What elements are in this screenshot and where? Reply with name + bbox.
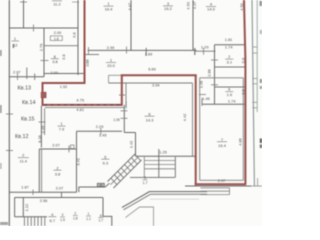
svg-text:Кв.14: Кв.14 [22, 100, 36, 106]
room5 left wall [76, 131, 78, 192]
red wall B: y83 horizontal [43, 82, 86, 84]
room label 8/3.8 [51, 54, 59, 64]
svg-text:2.00: 2.00 [50, 70, 58, 75]
room label 1/7.9 [58, 121, 66, 131]
corridor bottom dark wall under red dash [45, 107, 124, 109]
red wall I: right vertical [244, 0, 245, 184]
red wall F: y74.6 horizontal [121, 74, 197, 76]
thick corridor diagonal wall [122, 192, 207, 208]
room label 1/16.4 [104, 1, 114, 11]
svg-text:1.7: 1.7 [143, 181, 148, 185]
tick on y76.7 [17, 74, 19, 81]
stub x202 [201, 98, 203, 104]
top-left room bottom wall [9, 27, 78, 29]
svg-text:1.52: 1.52 [60, 84, 68, 89]
tick on top edge [20, 1, 27, 3]
wall x44 small rooms left [43, 28, 45, 77]
svg-text:1.74: 1.74 [228, 99, 236, 104]
mid vertical of stair box [158, 149, 160, 177]
svg-text:0.8: 0.8 [72, 32, 77, 37]
svg-text:1.45: 1.45 [99, 133, 107, 138]
svg-text:11.4: 11.4 [20, 158, 28, 163]
tick on bottom wall x33 [32, 190, 34, 196]
divider y87 [215, 86, 247, 88]
stub wall x34.7 [34, 74, 36, 81]
svg-text:14.3: 14.3 [146, 117, 155, 122]
small rooms column right: wall x214.5 [214, 45, 216, 105]
svg-text:16.2: 16.2 [164, 6, 173, 11]
room label 2/3.1 [225, 54, 233, 64]
right building edge double wall [252, 0, 254, 186]
svg-text:2.86: 2.86 [207, 69, 212, 77]
bottom-center step walls [103, 198, 112, 227]
bottom of room 1/12 [9, 76, 44, 78]
svg-text:4.75: 4.75 [76, 97, 84, 102]
room label 5/1.7 under stair [143, 176, 148, 185]
svg-text:3.8: 3.8 [52, 59, 58, 64]
svg-text:4.50: 4.50 [186, 1, 191, 9]
stub x61.5 [61, 192, 63, 197]
door niche corridor/room6 [109, 74, 122, 76]
svg-text:2.16: 2.16 [40, 126, 45, 134]
svg-text:16.4: 16.4 [218, 143, 227, 148]
rungs between right walls [252, 46, 257, 48]
red wall H: y183.5 bottom [195, 183, 247, 185]
staircase mid rail [111, 157, 139, 185]
room label 6/14.3 [145, 111, 155, 122]
room label 1.8 boxed [50, 36, 62, 41]
room 3/3.8 left wall [38, 149, 40, 192]
svg-text:1.25: 1.25 [159, 149, 167, 154]
faint green smudge [86, 60, 89, 65]
room label 6/1.6 [225, 87, 233, 97]
tick room7 top-left [201, 102, 203, 106]
svg-text:2.56: 2.56 [40, 198, 48, 203]
tick on double wall y122 [39, 121, 46, 123]
room label 2/11.4 [18, 153, 29, 164]
top wall room 2/3.1 [215, 44, 247, 46]
svg-text:4.42: 4.42 [182, 114, 187, 122]
room label 5/9.3 [101, 154, 109, 165]
divider y67 [215, 66, 247, 68]
ticks on left wall x9.3 [6, 113, 13, 115]
svg-text:2: 2 [74, 212, 76, 216]
svg-text:1.5: 1.5 [60, 218, 65, 222]
svg-text:6.16: 6.16 [37, 135, 42, 143]
svg-text:0.8: 0.8 [241, 89, 246, 94]
svg-text:2.97: 2.97 [13, 69, 21, 74]
bottom-left jog [15, 197, 103, 199]
room label 7/16.4 [217, 137, 227, 148]
connector bottom right edge [252, 185, 262, 187]
svg-text:5: 5 [144, 176, 146, 180]
tick on room5 top [100, 128, 102, 135]
wall below red bottom right [185, 185, 252, 187]
bottom of room 8/3.8 [44, 73, 85, 75]
staircase diagonal rails [108, 154, 136, 182]
right edge cut-off marks [260, 139, 262, 144]
svg-text:9.3: 9.3 [103, 160, 109, 165]
svg-text:4.47: 4.47 [127, 3, 132, 11]
svg-text:1.29: 1.29 [201, 44, 209, 49]
connector to corridor wall [105, 183, 109, 187]
svg-text:1.74: 1.74 [225, 44, 233, 49]
svg-text:20.0: 20.0 [107, 63, 116, 68]
wall x124.3 below corridor [123, 105, 125, 133]
double wall below red corner x41.4/x44.6 [40, 106, 42, 148]
red wall A: x84.5 vertical [84, 0, 86, 83]
ticks on x214.5 [211, 59, 218, 61]
ticks on y48.5 [88, 47, 90, 54]
tick between rooms 6/7 [199, 94, 206, 96]
svg-text:1.87: 1.87 [21, 184, 29, 189]
room label 4/14.0 [206, 2, 216, 12]
svg-text:1.8: 1.8 [73, 217, 78, 221]
room6 bottom wall [136, 155, 196, 157]
svg-text:14.0: 14.0 [207, 7, 216, 12]
svg-text:1.69: 1.69 [145, 52, 153, 57]
corridor top wall y48.5 [88, 49, 197, 51]
bottom-left stair treads [24, 217, 44, 226]
dark speck left label area [13, 44, 15, 48]
tick cross on x44 [41, 60, 49, 62]
staircase treads [111, 154, 141, 184]
svg-text:Кв.13: Кв.13 [18, 86, 32, 92]
svg-text:3.8: 3.8 [55, 171, 61, 176]
svg-text:1.1: 1.1 [86, 217, 91, 221]
svg-text:3.1: 3.1 [227, 60, 233, 65]
room 2/7.9 bottom wall [39, 148, 76, 150]
bottom y104.3 [202, 103, 246, 105]
tick on y51.3 [203, 48, 205, 55]
svg-text:2.07: 2.07 [56, 186, 64, 191]
room label 11.2 (top cut) [52, 1, 62, 7]
two tiny duct squares [97, 183, 100, 186]
svg-text:2.99: 2.99 [107, 45, 115, 50]
room label 4/6.7 [48, 212, 56, 223]
svg-text:0.8: 0.8 [241, 58, 246, 63]
svg-text:3: 3 [62, 213, 64, 217]
door blob on y147.5 [71, 145, 75, 149]
wall x78 [77, 0, 79, 75]
svg-text:1.8: 1.8 [54, 37, 59, 41]
svg-text:2.97: 2.97 [218, 178, 226, 183]
corridor wall left of stairs [79, 186, 105, 188]
wall x192 top [192, 0, 194, 50]
svg-text:4.47: 4.47 [192, 2, 197, 10]
dark speck bottom-left corner [0, 222, 8, 225]
room5 top wall [77, 130, 123, 132]
room label 1/12 [12, 36, 20, 47]
svg-text:4.81: 4.81 [76, 107, 84, 112]
svg-text:2.00: 2.00 [54, 30, 62, 35]
tick on that wall [33, 25, 35, 32]
top-left room right wall [23, 0, 25, 28]
room6 inner faces [109, 82, 193, 84]
svg-text:4.86: 4.86 [238, 138, 243, 146]
svg-text:1.45: 1.45 [202, 96, 210, 101]
tiny bottom room labels [60, 212, 103, 223]
left edge artifact marks [0, 50, 2, 56]
svg-text:5.69: 5.69 [148, 67, 156, 72]
svg-text:1: 1 [88, 212, 90, 216]
svg-text:1.05: 1.05 [113, 118, 120, 122]
svg-text:2.07: 2.07 [52, 142, 60, 147]
svg-text:1.81: 1.81 [225, 37, 233, 42]
svg-text:Кв.12: Кв.12 [15, 134, 29, 140]
svg-text:4.50: 4.50 [239, 2, 244, 10]
room7 inner face rectangle [200, 78, 244, 181]
svg-text:8: 8 [100, 214, 102, 218]
room label 3/3.8 [54, 165, 62, 176]
steps below room7 [201, 187, 230, 189]
wall x131 top [130, 0, 132, 50]
svg-text:0.8: 0.8 [61, 54, 66, 59]
svg-text:1.06: 1.06 [199, 81, 204, 89]
red wall C: x42.5 vertical [42, 82, 44, 106]
ticks on x124.3 [121, 110, 128, 112]
svg-text:Кв.15: Кв.15 [21, 116, 35, 122]
tick on y147.5 [68, 146, 70, 153]
room label 3/16.2 [163, 1, 173, 11]
svg-text:11.2: 11.2 [53, 1, 61, 6]
red wall E: x122 vertical [121, 75, 123, 106]
stub y54.5 [85, 54, 100, 56]
upper stair flight box [143, 157, 145, 178]
svg-text:1.6: 1.6 [227, 92, 233, 97]
svg-text:6.7: 6.7 [50, 218, 56, 223]
svg-text:1.12: 1.12 [24, 204, 29, 212]
red dashed boundary y105.8 [43, 104, 123, 106]
stair box bottom [130, 176, 175, 178]
faint line right [150, 198, 199, 200]
room6 bottom-left step [124, 132, 135, 134]
svg-text:7.9: 7.9 [59, 126, 65, 131]
svg-text:3.94: 3.94 [152, 83, 160, 88]
divider small rooms [44, 45, 78, 47]
svg-text:3.41: 3.41 [75, 158, 80, 166]
svg-text:1.7: 1.7 [98, 219, 103, 223]
svg-text:1.42: 1.42 [128, 141, 133, 149]
red door leaf on C [41, 92, 46, 97]
wall y51.3 [196, 50, 216, 52]
left outer wall [8, 0, 10, 226]
svg-text:16.4: 16.4 [105, 6, 114, 11]
tick on red F left end [119, 94, 125, 96]
tick near wall x78 top [72, 1, 79, 3]
svg-text:2.79: 2.79 [39, 44, 44, 52]
room label 1/20.0 [106, 58, 116, 68]
bottom wall left rooms [9, 191, 76, 193]
red wall G: x196.5 vertical [195, 75, 197, 185]
lower corridor boundary [126, 207, 154, 226]
svg-text:2.29: 2.29 [96, 124, 104, 129]
